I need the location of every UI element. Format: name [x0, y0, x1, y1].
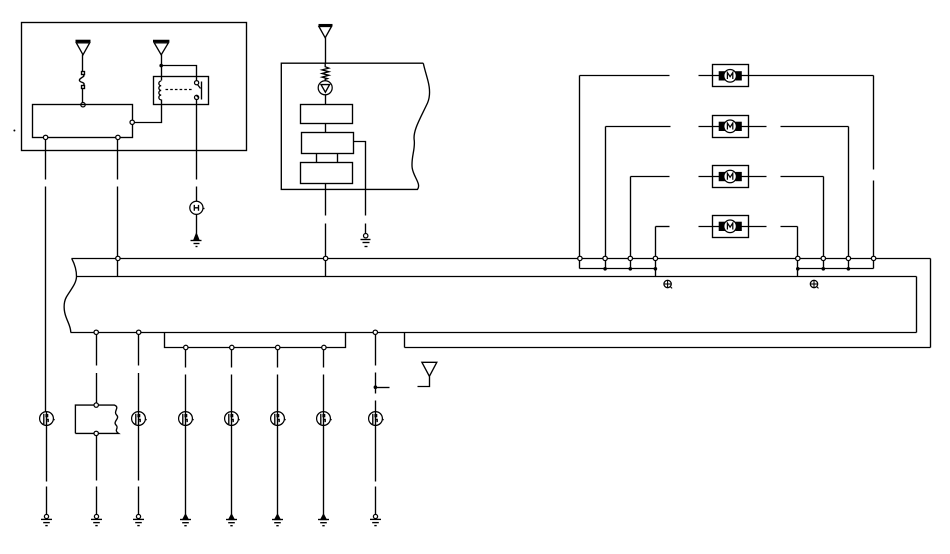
- harness inner right edge: [916, 277, 918, 333]
- wire col5 down: [231, 350, 233, 368]
- relay blade: [198, 85, 201, 89]
- node junction dot: [374, 385, 378, 389]
- wire: [185, 426, 187, 515]
- ground G7: [226, 515, 237, 526]
- ECU block 2: [302, 133, 354, 154]
- wire: [96, 487, 98, 515]
- relay dashed link: [166, 89, 193, 91]
- node on band A x118: [116, 256, 120, 260]
- ground G10: [370, 514, 381, 525]
- stray dot: [13, 130, 15, 132]
- actuator A1: [40, 412, 55, 426]
- harness inner top line: [77, 276, 917, 278]
- ground G3: [41, 514, 52, 525]
- node box bottom: [94, 431, 98, 435]
- wire col2 down: [96, 335, 98, 366]
- relay contact top: [195, 81, 199, 85]
- node on band A x325: [323, 256, 327, 260]
- wire: [323, 426, 325, 515]
- connector node on switch top: [81, 103, 85, 107]
- wire relay to horn: [196, 100, 198, 180]
- wire coil to switch: [135, 100, 162, 123]
- wire branch to triangle: [376, 387, 390, 389]
- ECU block 1: [301, 105, 353, 124]
- wire: [231, 426, 233, 515]
- node on sub-box c4: [184, 345, 188, 349]
- motor M1 wires: [580, 75, 670, 77]
- wire: [117, 261, 119, 277]
- relay coil: [159, 81, 161, 100]
- wire col6 down: [277, 350, 279, 368]
- wire: [277, 426, 279, 515]
- wire: [375, 426, 377, 482]
- connector node switch bottom left: [43, 135, 47, 139]
- horn H1: [190, 201, 205, 214]
- motor M2: [713, 116, 749, 138]
- wire: [82, 55, 84, 72]
- right splice bus: [797, 261, 799, 277]
- wire left box col2: [117, 140, 119, 180]
- left splice bus: [579, 261, 581, 269]
- actuator A4: [179, 412, 194, 426]
- wire left box col1: [45, 140, 47, 180]
- wire col3 down: [138, 335, 140, 366]
- wire: [46, 426, 48, 482]
- wire: [325, 224, 327, 257]
- wire: [117, 187, 119, 257]
- actuator A7: [317, 412, 332, 426]
- motor M2 wires: [606, 126, 671, 128]
- wire stub: [404, 333, 406, 348]
- node on sub-box c5: [230, 345, 234, 349]
- wire col7 down: [323, 350, 325, 368]
- power feed triangle B4: [422, 362, 437, 376]
- wire col1 lower: [46, 412, 48, 414]
- wire col4 down: [185, 350, 187, 368]
- ground G2: [361, 234, 371, 247]
- node on band D x96: [94, 330, 98, 334]
- actuator A3: [132, 412, 147, 426]
- power feed triangle B2: [153, 41, 169, 55]
- actuator A6: [271, 412, 286, 426]
- wire: [162, 66, 197, 81]
- harness band top line: [72, 258, 931, 260]
- wire: [316, 154, 318, 163]
- wire: [365, 224, 367, 234]
- node box top: [94, 403, 98, 407]
- wire: [325, 124, 327, 133]
- ground G6: [180, 515, 191, 526]
- node on band D x375: [373, 330, 377, 334]
- relay box R1: [154, 77, 209, 105]
- ECU box with torn edge: [281, 63, 429, 189]
- ground G9: [318, 515, 329, 526]
- ground G5: [133, 514, 144, 525]
- motor M3 wires: [631, 176, 670, 178]
- connector node right edge: [130, 120, 134, 124]
- splice mark right: [810, 280, 818, 288]
- torn edge curve: [64, 258, 76, 332]
- motor M3: [713, 166, 749, 188]
- harness inner bottom line: [71, 332, 917, 334]
- node on sub-box c6: [276, 345, 280, 349]
- splice mark left: [664, 280, 672, 288]
- connector sub-box: [165, 333, 346, 348]
- wire: [196, 215, 198, 234]
- door lock control switch box: [33, 105, 133, 138]
- ground G4: [91, 514, 102, 525]
- wire: [375, 487, 377, 515]
- wire: [375, 401, 377, 412]
- wire: [138, 426, 140, 481]
- wire: [196, 187, 198, 202]
- ground G8: [272, 515, 283, 526]
- power feed triangle B3: [319, 25, 333, 38]
- circuit breaker symbol: [318, 81, 332, 95]
- wire: [325, 95, 327, 105]
- ECU block 3: [301, 163, 353, 184]
- ground G1: [191, 234, 202, 247]
- actuator A8: [369, 412, 384, 426]
- actuator A5: [225, 412, 240, 426]
- wire: [138, 487, 140, 515]
- wire: [161, 55, 163, 81]
- wire block2 to ground: [354, 142, 366, 216]
- motor M1: [713, 65, 749, 87]
- wire: [325, 38, 327, 64]
- wire: [337, 154, 339, 163]
- wire: [82, 89, 84, 103]
- connector node switch bottom right: [116, 135, 120, 139]
- wire block3 down: [325, 184, 327, 216]
- motor M4: [713, 216, 749, 238]
- left group nodes on band: [578, 256, 876, 260]
- wire: [96, 436, 98, 481]
- key cylinder box with torn edge: [75, 405, 118, 433]
- wire: [325, 261, 327, 277]
- node junction dot: [159, 64, 163, 68]
- heater coil element: [322, 63, 329, 81]
- motor M4 wires: [656, 226, 670, 228]
- harness band bottom line: [405, 347, 931, 349]
- junction box J/B outline: [22, 23, 247, 151]
- relay blade tick: [197, 96, 199, 98]
- relay contact bottom: [195, 95, 199, 99]
- node on band D x138: [137, 330, 141, 334]
- harness band right edge: [930, 259, 932, 348]
- power feed triangle B1: [76, 41, 91, 55]
- relay armature bar: [201, 82, 203, 100]
- wire: [46, 487, 48, 515]
- wire col8 down: [375, 335, 377, 366]
- wire: [45, 187, 47, 413]
- fuse F1: [79, 72, 84, 89]
- node on sub-box c7: [322, 345, 326, 349]
- wire: [418, 377, 430, 387]
